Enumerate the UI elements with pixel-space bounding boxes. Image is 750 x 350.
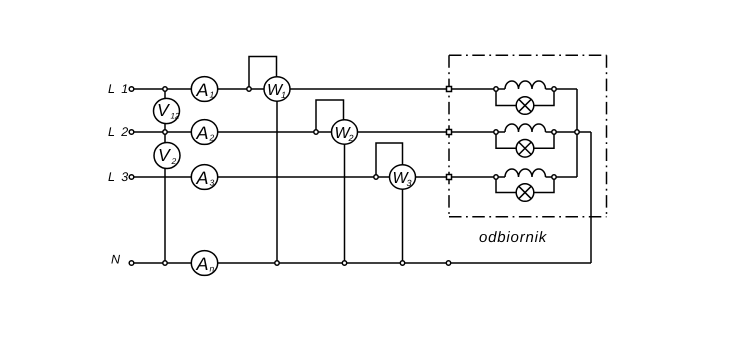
inductor L row2: [505, 124, 546, 132]
terminal N: [129, 261, 134, 266]
svg-text:2: 2: [171, 156, 177, 166]
svg-text:3: 3: [210, 178, 215, 188]
wire W2 current-coil bump: [316, 100, 344, 132]
node bus/row2 junction: [575, 130, 579, 134]
ammeter A2: [191, 120, 217, 145]
node N/voltmeter junction: [163, 261, 167, 265]
svg-text:A: A: [196, 80, 209, 100]
svg-text:L 2: L 2: [108, 125, 130, 139]
ammeter A1: [191, 77, 217, 102]
voltmeter V12: [154, 98, 180, 123]
inductor L row1: [505, 81, 546, 89]
node W3 bump on L3: [374, 175, 378, 179]
inductor L row3: [505, 169, 546, 177]
wire N neutral line: [134, 262, 591, 264]
wire L1 after inductor to bus: [546, 88, 578, 90]
svg-text:12: 12: [171, 112, 180, 121]
svg-text:1: 1: [281, 90, 286, 100]
terminal square L1 at box border: [447, 87, 452, 92]
ammeter A3: [191, 165, 217, 190]
node load row3 right: [552, 175, 556, 179]
voltmeter V2: [154, 143, 180, 169]
node load row2 left: [494, 130, 498, 134]
wire L2 phase line: [134, 131, 505, 133]
wattmeter W3: [390, 165, 416, 189]
wire L2 after inductor to down wire: [546, 131, 592, 133]
wire right bus of load: [576, 89, 578, 177]
svg-text:odbiornik: odbiornik: [479, 229, 548, 246]
node W2 bump on L2: [314, 130, 318, 134]
lamp E2 row2: [516, 140, 534, 158]
wire W3 current-coil bump: [376, 143, 403, 177]
wire L1 phase line: [134, 88, 505, 90]
node L2/voltmeter junction: [163, 130, 167, 134]
svg-text:3: 3: [407, 178, 412, 188]
svg-text:L 3: L 3: [108, 170, 130, 184]
node load row1 left: [494, 87, 498, 91]
lamp branch row3: [496, 177, 516, 193]
svg-text:N: N: [111, 253, 121, 267]
lamp branch row1: [496, 89, 516, 106]
svg-text:A: A: [196, 168, 209, 188]
node W1 bump on L1: [247, 87, 251, 91]
lamp branch row2: [496, 132, 516, 148]
node W3 voltage on N: [400, 261, 404, 265]
ammeter AN: [191, 251, 217, 276]
node N terminal at box: [446, 261, 450, 265]
svg-text:A: A: [196, 254, 209, 274]
wire voltmeter branch vertical: [164, 89, 166, 263]
terminal L3: [129, 175, 134, 180]
svg-text:2: 2: [348, 133, 354, 143]
terminal square L2 at box border: [447, 130, 452, 135]
wire load return down to N: [590, 132, 592, 263]
wattmeter W2: [332, 120, 358, 144]
node W2 voltage on N: [342, 261, 346, 265]
svg-text:n: n: [210, 264, 215, 274]
wattmeter W1: [264, 77, 290, 101]
wire W2 voltage coil to N: [344, 132, 346, 263]
wire L3 after inductor to bus: [546, 176, 578, 178]
terminal square L3 at box border: [447, 175, 452, 180]
svg-text:2: 2: [209, 133, 215, 143]
wire W1 current-coil bump: [249, 57, 277, 90]
svg-text:A: A: [196, 123, 209, 143]
node load row1 right: [552, 87, 556, 91]
lamp E3 row3: [516, 184, 534, 202]
node load row2 right: [552, 130, 556, 134]
wire W1 voltage coil to N: [276, 89, 278, 263]
load box dash-dot border: [449, 55, 607, 217]
node W1 voltage on N: [275, 261, 279, 265]
terminal L1: [129, 87, 134, 92]
svg-text:L 1: L 1: [108, 82, 130, 96]
wire L3 phase line: [134, 176, 505, 178]
lamp E1 row1: [516, 97, 534, 115]
node L1/voltmeter junction: [163, 87, 167, 91]
wire W3 voltage coil to N: [402, 177, 404, 263]
svg-text:1: 1: [210, 90, 215, 100]
node load row3 left: [494, 175, 498, 179]
terminal L2: [129, 130, 134, 135]
